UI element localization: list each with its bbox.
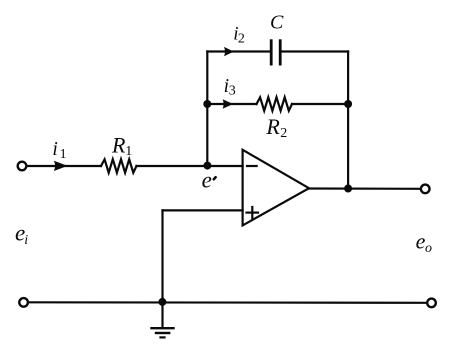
wire: top branch (to capacitor C) xyxy=(207,50,271,52)
svg-text:2: 2 xyxy=(238,31,245,46)
junction: R2 to feedback rail xyxy=(344,100,352,108)
svg-text:e: e xyxy=(202,167,212,192)
op-amp inverting input mark (-) xyxy=(247,165,257,167)
wire: capacitor C to right feedback rail xyxy=(280,50,348,52)
wire: non-inverting input down to ground rail xyxy=(161,210,163,302)
svg-text:1: 1 xyxy=(60,147,67,162)
wire: resistor R1 to op-amp inverting input (through node e') xyxy=(137,165,243,167)
current arrow i2 xyxy=(224,47,234,56)
terminal: output eo (top-right open circle) xyxy=(421,185,430,194)
svg-text:R: R xyxy=(265,114,280,139)
svg-text:C: C xyxy=(270,12,284,34)
wire: input terminal to resistor R1 xyxy=(27,165,101,167)
junction: feedback rail to output wire xyxy=(344,185,352,193)
wire: non-inverting input horizontal xyxy=(163,209,243,211)
wire: vertical from node e' up to feedback branches xyxy=(206,52,208,167)
wire: right feedback rail vertical xyxy=(347,52,349,189)
capacitor C xyxy=(271,41,280,64)
terminal: common bottom-left open circle xyxy=(19,298,28,307)
ground xyxy=(152,302,174,337)
svg-text:i: i xyxy=(52,139,57,160)
node e' (junction dot) xyxy=(203,162,211,170)
resistor R2 xyxy=(257,97,293,110)
wire: op-amp output to output terminal xyxy=(309,187,421,190)
svg-text:3: 3 xyxy=(229,84,236,99)
op-amp U1 xyxy=(243,150,309,226)
terminal: input ei (top-left open circle) xyxy=(18,162,27,171)
resistor R1 xyxy=(101,159,137,172)
wire: middle branch from e' vertical to resistor R2 xyxy=(207,103,256,105)
svg-text:1: 1 xyxy=(125,144,132,159)
current arrow i1 xyxy=(54,161,68,171)
wire: bottom common rail xyxy=(28,301,426,304)
junction: node e' branch to R2 xyxy=(203,100,211,108)
op-amp non-inverting input mark (+) xyxy=(247,207,259,218)
junction: ground rail node xyxy=(158,298,166,306)
svg-text:R: R xyxy=(111,133,126,158)
svg-text:i: i xyxy=(24,233,28,248)
terminal: common bottom-right open circle xyxy=(427,299,436,308)
current arrow i3 xyxy=(223,99,234,108)
svg-text:o: o xyxy=(425,241,432,256)
wire: resistor R2 to right feedback rail xyxy=(292,103,348,105)
svg-text:2: 2 xyxy=(280,126,287,141)
